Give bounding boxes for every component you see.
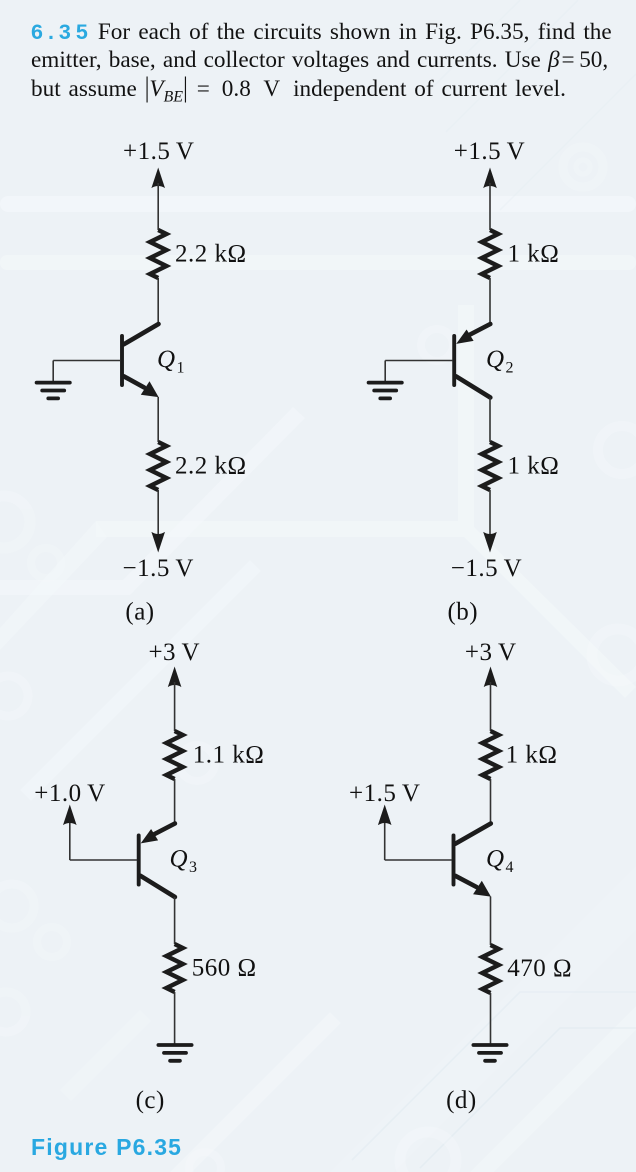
svg-text:−1.5 V: −1.5 V — [451, 555, 522, 582]
svg-text:3: 3 — [189, 859, 198, 876]
power arrow +1.5V (d) — [378, 805, 392, 826]
wire collector to RC (b) — [489, 398, 491, 443]
power arrow +1.5V (b) — [483, 168, 497, 189]
resistor RC 560 (c) — [166, 944, 182, 992]
svg-text:2: 2 — [506, 360, 515, 377]
transistor Q1 collector lead — [124, 324, 159, 344]
wire base to +1.5V (d) — [384, 822, 386, 860]
svg-text:Q: Q — [157, 346, 176, 373]
wire base to ground (b) — [384, 361, 386, 382]
transistor Q3 base bar — [137, 836, 141, 885]
svg-text:560 Ω: 560 Ω — [192, 955, 257, 982]
resistor RC 1k (d) — [482, 731, 498, 779]
wire collector supply (d) — [490, 682, 492, 731]
wire RC to -1.5V (b) — [489, 490, 491, 536]
wire base (d) — [385, 859, 452, 861]
power arrow +3V (d) — [484, 667, 498, 688]
diagonal pcb traces lower-left — [0, 407, 305, 595]
svg-text:1 kΩ: 1 kΩ — [506, 742, 558, 769]
power arrow -1.5V (b) — [483, 532, 497, 553]
svg-text:1 kΩ: 1 kΩ — [508, 241, 560, 268]
transistor Q1 base bar — [120, 336, 124, 385]
wire resistor to emitter (b) — [489, 278, 491, 324]
svg-text:Q: Q — [170, 846, 189, 873]
svg-text:−1.5 V: −1.5 V — [122, 555, 193, 582]
wire emitter to RE (a) — [157, 397, 159, 442]
wire base to ground (a) — [52, 361, 54, 382]
svg-text:4: 4 — [506, 859, 515, 876]
wire RC to ground (c) — [174, 992, 176, 1044]
svg-text:(c): (c) — [136, 1087, 165, 1114]
horizontal pcb trace band — [0, 196, 636, 212]
wire RE to ground (d) — [490, 993, 492, 1044]
wire collector supply (a) — [157, 183, 159, 230]
ground (a) — [37, 381, 70, 385]
svg-text:1.1 kΩ: 1.1 kΩ — [193, 742, 265, 769]
transistor Q4 emitter lead with arrow — [455, 876, 476, 887]
svg-text:+1.5 V: +1.5 V — [123, 138, 194, 165]
power arrow +3V (c) — [168, 667, 182, 688]
transistor Q1 emitter lead with arrow — [124, 376, 144, 387]
transistor Q2 base bar — [452, 336, 456, 385]
ground (c) — [158, 1043, 191, 1047]
wire resistor to emitter (c) — [174, 779, 176, 824]
svg-text:(b): (b) — [447, 599, 478, 626]
svg-text:Q: Q — [486, 846, 505, 873]
ground (d) — [473, 1043, 506, 1047]
svg-text:+3 V: +3 V — [148, 639, 200, 666]
wire emitter supply (c) — [174, 682, 176, 731]
wire collector to RC (c) — [174, 897, 176, 944]
svg-text:(d): (d) — [446, 1087, 477, 1114]
power arrow +1.0V (c) — [63, 805, 77, 826]
svg-text:+1.5 V: +1.5 V — [349, 780, 420, 807]
resistor RE 470 (d) — [482, 945, 498, 993]
transistor Q4 base bar — [452, 836, 456, 885]
svg-text:(a): (a) — [125, 599, 154, 626]
svg-text:470 Ω: 470 Ω — [507, 955, 572, 982]
wire RE to -1.5V (a) — [157, 490, 159, 536]
ground (b) — [369, 381, 402, 385]
svg-text:+1.5 V: +1.5 V — [454, 138, 525, 165]
svg-text:Q: Q — [486, 346, 505, 373]
svg-text:1: 1 — [177, 360, 186, 377]
wire resistor to collector (d) — [490, 779, 492, 824]
svg-text:+1.0 V: +1.0 V — [34, 780, 105, 807]
resistor RC 1k (b) — [482, 442, 498, 490]
transistor Q2 collector lead — [456, 376, 490, 397]
svg-text:2.2 kΩ: 2.2 kΩ — [175, 453, 247, 480]
mid horizontal pcb trace band with bends — [96, 305, 636, 698]
transistor Q2 emitter lead with arrow — [468, 324, 490, 336]
transistor Q3 collector lead — [141, 876, 175, 897]
thin trace lines top-right — [430, 0, 636, 210]
wire emitter supply (b) — [489, 183, 491, 230]
wire resistor to collector (a) — [157, 278, 159, 324]
svg-text:+3 V: +3 V — [465, 639, 517, 666]
problem statement text — [31, 18, 611, 103]
horizontal pcb trace band — [0, 255, 636, 270]
transistor Q4 collector lead — [455, 824, 491, 844]
transistor Q3 emitter lead with arrow — [153, 824, 175, 836]
wire emitter to RE (d) — [490, 897, 492, 946]
wire base (c) — [70, 859, 137, 861]
svg-text:1 kΩ: 1 kΩ — [508, 453, 560, 480]
power arrow -1.5V (a) — [151, 532, 165, 553]
resistor RE 2.2k (a) — [150, 442, 166, 490]
resistor RE 1k (b) — [482, 230, 498, 278]
figure caption — [31, 1134, 182, 1161]
thin trace lines bottom-right — [352, 992, 636, 1168]
resistor RE 1.1k (c) — [166, 731, 182, 779]
resistor RC 2.2k (a) — [150, 230, 166, 278]
wire base (a) — [53, 360, 120, 362]
svg-text:2.2 kΩ: 2.2 kΩ — [175, 241, 247, 268]
power arrow +1.5V (a) — [151, 168, 165, 189]
wire base (b) — [385, 360, 453, 362]
wire base to +1.0V (c) — [69, 822, 71, 860]
wide diagonal band lower-right — [330, 866, 636, 1172]
